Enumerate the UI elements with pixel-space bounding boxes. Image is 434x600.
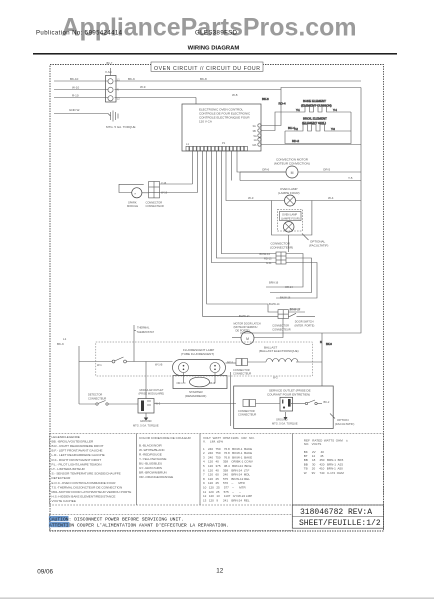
svg-text:BRN-16: BRN-16 xyxy=(269,281,279,285)
svg-text:MODULAR OUTLET: MODULAR OUTLET xyxy=(140,388,164,392)
svg-text:(CONNECTEUR): (CONNECTEUR) xyxy=(270,246,293,250)
svg-text:MDL-MOTOR DOOR LATCH/MOTEUR VE: MDL-MOTOR DOOR LATCH/MOTEUR VERROU PORTE xyxy=(52,490,132,494)
svg-text:GY-1: GY-1 xyxy=(227,360,233,364)
svg-text:BK-1: BK-1 xyxy=(209,381,215,385)
svg-text:GROUND: GROUND xyxy=(140,419,152,423)
svg-text:BK-10: BK-10 xyxy=(70,77,79,81)
svg-text:MA: MA xyxy=(253,143,257,147)
svg-text:M: M xyxy=(246,337,249,341)
svg-text:LEGEND/LEGENDE: LEGEND/LEGENDE xyxy=(52,435,80,439)
svg-text:09/06: 09/06 xyxy=(37,569,53,576)
svg-text:L.R.- LEFT REAR/ARRIERE GAUCHE: L.R.- LEFT REAR/ARRIERE GAUCHE xyxy=(52,453,105,457)
svg-text:BB. -BROIL/VOUTE/GRILLER: BB. -BROIL/VOUTE/GRILLER xyxy=(52,439,95,443)
svg-text:SHEET/FEUILLE:1/2: SHEET/FEUILLE:1/2 xyxy=(299,519,381,528)
svg-text:W 9V 740 C-172 OHM: W 9V 740 C-172 OHM xyxy=(304,471,345,475)
svg-text:(PRISE MODULAIRE): (PRISE MODULAIRE) xyxy=(139,392,165,396)
svg-text:(FACULTATIF): (FACULTATIF) xyxy=(335,422,354,426)
svg-text:BK-7: BK-7 xyxy=(107,61,113,65)
svg-text:MTG. 5 GA. TORQUE: MTG. 5 GA. TORQUE xyxy=(106,125,136,129)
svg-text:W-10: W-10 xyxy=(72,85,79,89)
svg-text:BR.-BROWN/BRUN: BR.-BROWN/BRUN xyxy=(139,470,167,474)
svg-text:GY.-GRAY/GRIS: GY.-GRAY/GRIS xyxy=(139,466,162,470)
svg-text:OVEN CIRCUIT // CIRCUIT DU FOU: OVEN CIRCUIT // CIRCUIT DU FOUR xyxy=(154,66,260,72)
svg-text:DETECTOR: DETECTOR xyxy=(88,393,102,397)
svg-text:THERMOSTAT: THERMOSTAT xyxy=(137,330,155,334)
svg-text:W-1-B: W-1-B xyxy=(155,363,163,367)
svg-text:GND W.: GND W. xyxy=(69,108,80,112)
svg-text:(MOTEUR CONVECTION): (MOTEUR CONVECTION) xyxy=(274,162,310,166)
svg-text:CAUTION: DISCONNECT POWER BEFO: CAUTION: DISCONNECT POWER BEFORE SERVICI… xyxy=(49,517,184,523)
svg-text:W-2: W-2 xyxy=(273,376,278,380)
svg-text:1A: 1A xyxy=(254,138,257,142)
svg-text:ATTENTION COUPER L'ALIMENTATIO: ATTENTION COUPER L'ALIMENTATION AVANT D'… xyxy=(49,523,229,529)
svg-text:CONNECTOR: CONNECTOR xyxy=(272,323,289,327)
svg-text:BU-4: BU-4 xyxy=(288,126,295,130)
svg-text:(LAMPE FOUR): (LAMPE FOUR) xyxy=(278,191,300,195)
svg-text:Y.-YELLOW/JAUNE: Y.-YELLOW/JAUNE xyxy=(139,457,166,461)
svg-text:RD-13: RD-13 xyxy=(264,257,272,261)
svg-text:T.S.-THERMAL DISJONCTEUR DE CO: T.S.-THERMAL DISJONCTEUR DE CONNECTION xyxy=(52,485,123,489)
svg-text:P1: P1 xyxy=(222,141,226,145)
svg-text:LT.- LIMITER/LIMITEUR: LT.- LIMITER/LIMITEUR xyxy=(52,467,86,471)
svg-text:5A: 5A xyxy=(254,134,257,138)
svg-text:W.-WHITE/BLANC: W.-WHITE/BLANC xyxy=(139,448,166,452)
svg-text:W-3: W-3 xyxy=(248,196,254,200)
svg-text:W-9: W-9 xyxy=(140,85,146,89)
svg-text:CONNECTOR: CONNECTOR xyxy=(233,368,250,372)
svg-text:B.-BLACK/NOIR: B.-BLACK/NOIR xyxy=(139,443,162,447)
svg-text:(TUBE FLUORESCENT): (TUBE FLUORESCENT) xyxy=(181,352,214,356)
svg-text:THERMAL: THERMAL xyxy=(137,326,150,330)
svg-text:3A: 3A xyxy=(253,124,256,128)
svg-text:W-4: W-4 xyxy=(328,196,334,200)
svg-text:GROUND: GROUND xyxy=(276,418,288,422)
svg-text:BK-9: BK-9 xyxy=(128,77,135,81)
svg-text:DOOR SWITCH: DOOR SWITCH xyxy=(295,319,314,323)
svg-text:BK-6: BK-6 xyxy=(262,97,269,101)
svg-text:OR-1: OR-1 xyxy=(177,381,184,385)
svg-text:CONNECTOR: CONNECTOR xyxy=(238,409,255,413)
svg-text:13 120 9 241 BRN-2: 13 120 9 241 BRN-24 REL xyxy=(203,498,250,502)
svg-text:P.L.- PILOT LIGHT/LAMPE TEMOIN: P.L.- PILOT LIGHT/LAMPE TEMOIN xyxy=(52,462,102,466)
svg-text:CONNECTEUR: CONNECTEUR xyxy=(233,372,251,376)
svg-text:CONNECTEUR: CONNECTEUR xyxy=(88,396,106,400)
svg-text:Y-16: Y-16 xyxy=(161,181,167,185)
svg-text:DETECTEUR: DETECTEUR xyxy=(52,476,72,480)
svg-text:Y-5: Y-5 xyxy=(348,176,353,180)
svg-text:L1: L1 xyxy=(63,337,67,341)
svg-text:OR-5: OR-5 xyxy=(323,168,330,172)
svg-text:R.-RED/ROUGE: R.-RED/ROUGE xyxy=(139,452,162,456)
svg-text:N: N xyxy=(320,340,322,344)
svg-text:OR-6: OR-6 xyxy=(262,168,269,172)
svg-text:W-1: W-1 xyxy=(97,363,102,367)
svg-text:BK/W-14: BK/W-14 xyxy=(260,252,271,256)
svg-text:V AC: V AC xyxy=(105,70,113,74)
svg-text:W-8: W-8 xyxy=(232,93,238,97)
svg-text:COLOR CODE/CODE DE COULEUR: COLOR CODE/CODE DE COULEUR xyxy=(139,436,192,440)
svg-text:120 V CA: 120 V CA xyxy=(199,120,212,124)
svg-text:(INTER. PORTE): (INTER. PORTE) xyxy=(295,323,315,327)
svg-text:AppliancePartsPros.com: AppliancePartsPros.com xyxy=(62,14,357,42)
svg-text:GLES389FSD: GLES389FSD xyxy=(195,31,238,37)
svg-text:Publication No: 5995424414: Publication No: 5995424414 xyxy=(36,31,123,37)
svg-text:BK-2: BK-2 xyxy=(324,400,330,404)
svg-text:OR-14: OR-14 xyxy=(285,285,293,289)
svg-text:E.O.C.-OVEN CONTROL/COMMANDE F: E.O.C.-OVEN CONTROL/COMMANDE FOUR xyxy=(52,481,117,485)
svg-text:(MOTEUR VERROU: (MOTEUR VERROU xyxy=(234,325,258,329)
svg-text:CONNECTOR: CONNECTOR xyxy=(146,200,163,204)
svg-text:(DEMARREUR): (DEMARREUR) xyxy=(185,394,206,398)
svg-text:CONNECTEUR: CONNECTEUR xyxy=(272,327,290,331)
svg-text:MTG. 5 GA. TORQUE: MTG. 5 GA. TORQUE xyxy=(272,422,298,426)
svg-text:OR.-ORANGE/ORANGE: OR.-ORANGE/ORANGE xyxy=(139,475,173,479)
svg-text:BK-8: BK-8 xyxy=(200,77,207,81)
svg-text:3B: 3B xyxy=(253,129,256,133)
svg-text:NO. VOLTS: NO. VOLTS xyxy=(304,442,321,446)
svg-text:M: M xyxy=(291,171,294,175)
svg-text:COURANT POUR ENTRETIEN): COURANT POUR ENTRETIEN) xyxy=(267,393,310,397)
svg-text:S.- SENSOR TEMPERATURE SONDE/C: S.- SENSOR TEMPERATURE SONDE/CHAUFFE xyxy=(52,472,121,476)
svg-text:MTG. 5 GA. TORQUE: MTG. 5 GA. TORQUE xyxy=(133,423,159,427)
svg-text:BK/W-12: BK/W-12 xyxy=(290,308,301,312)
svg-text:RD-2: RD-2 xyxy=(292,139,299,143)
svg-text:SPARK: SPARK xyxy=(128,200,137,204)
svg-text:RD-4: RD-4 xyxy=(279,102,286,106)
svg-text:R-10: R-10 xyxy=(72,93,79,97)
svg-text:CONNECTEUR: CONNECTEUR xyxy=(146,204,164,208)
svg-text:MOTOR DOOR LATCH: MOTOR DOOR LATCH xyxy=(234,322,261,326)
svg-text:Y-4: Y-4 xyxy=(333,108,337,112)
svg-text:V. LIM. ±5%: V. LIM. ±5% xyxy=(203,440,223,444)
svg-text:(ELEMENT CUISSON): (ELEMENT CUISSON) xyxy=(301,103,332,107)
svg-text:(BALLAST ELECTRONIQUE): (BALLAST ELECTRONIQUE) xyxy=(259,349,299,353)
svg-text:H.S.-HIDDEN BAKE ELEMENT/RESIS: H.S.-HIDDEN BAKE ELEMENT/RESISTANCE xyxy=(52,495,116,499)
svg-text:B.F.- LEFT FRONT/AVANT GAUCHE: B.F.- LEFT FRONT/AVANT GAUCHE xyxy=(52,449,103,453)
svg-text:(FACULTATIF): (FACULTATIF) xyxy=(309,244,328,248)
svg-text:BU/W-14: BU/W-14 xyxy=(269,302,280,306)
svg-text:DE PORTE): DE PORTE) xyxy=(236,329,250,333)
svg-text:VOUTE CACHEE: VOUTE CACHEE xyxy=(52,499,76,503)
svg-text:Y-3: Y-3 xyxy=(331,127,335,131)
svg-text:Y-1: Y-1 xyxy=(296,108,300,112)
svg-text:BK-9: BK-9 xyxy=(57,342,64,346)
svg-text:MODULE: MODULE xyxy=(127,204,138,208)
svg-text:B.R.- RIGHT REAR/ARRIERE DROIT: B.R.- RIGHT REAR/ARRIERE DROIT xyxy=(52,444,104,448)
svg-text:318046782 REV:A: 318046782 REV:A xyxy=(300,508,372,517)
svg-text:WIRING DIAGRAM: WIRING DIAGRAM xyxy=(188,46,240,52)
svg-text:R.F.- RIGHT FRONT/AVANT DROIT: R.F.- RIGHT FRONT/AVANT DROIT xyxy=(52,458,102,462)
svg-text:(LAMPE FOUR): (LAMPE FOUR) xyxy=(281,217,300,221)
svg-text:BU.-BLUE/BLEU: BU.-BLUE/BLEU xyxy=(139,461,162,465)
svg-text:BK/W-16: BK/W-16 xyxy=(280,296,291,300)
svg-text:CONNECTEUR: CONNECTEUR xyxy=(238,413,256,417)
svg-text:BK-9: BK-9 xyxy=(326,342,332,346)
svg-text:12: 12 xyxy=(216,568,224,575)
svg-text:OVEN LAMP: OVEN LAMP xyxy=(282,213,297,217)
